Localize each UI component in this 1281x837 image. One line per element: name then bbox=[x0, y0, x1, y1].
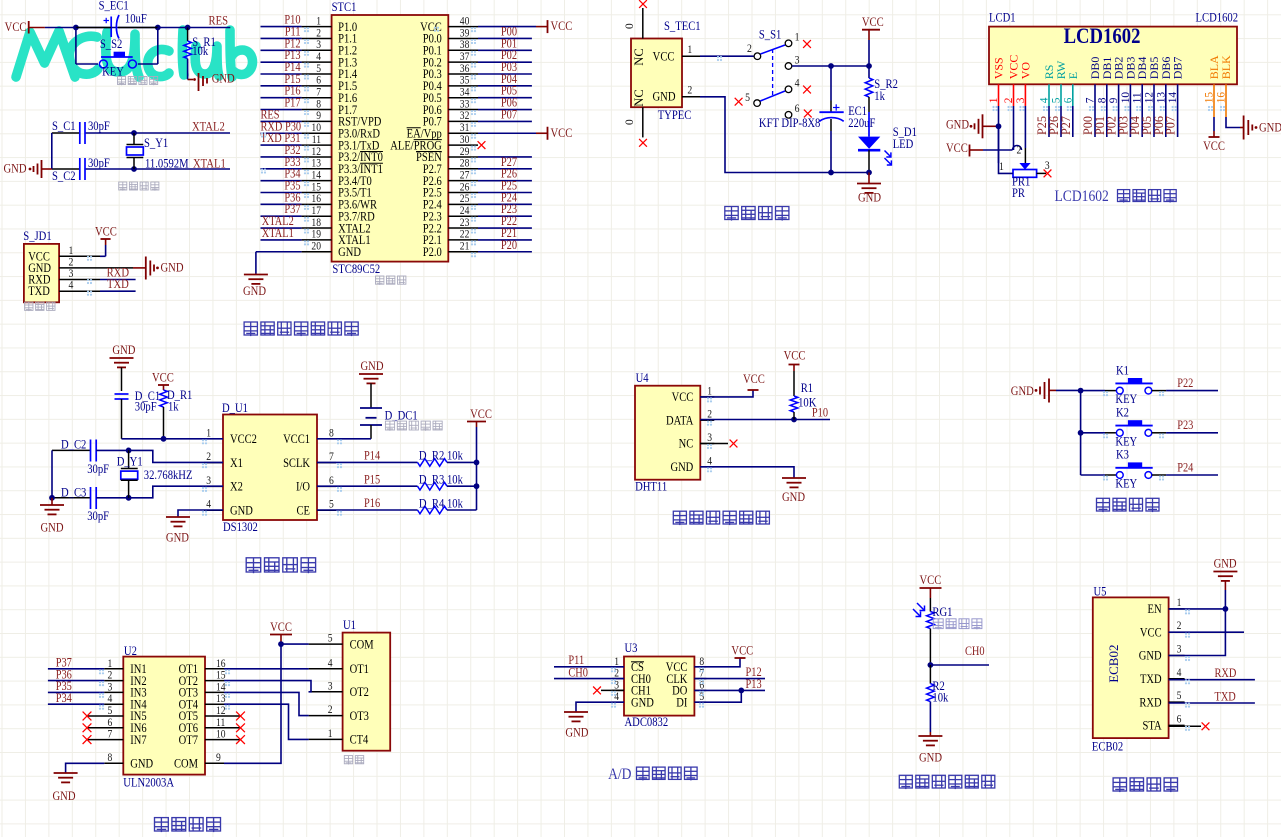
wire left vertical (crystal) bbox=[51, 133, 53, 169]
mcu pin 36 (P0.3) bbox=[448, 73, 478, 75]
svg-text:VCC: VCC bbox=[946, 141, 968, 155]
mcu pin 23 (P2.2) bbox=[448, 227, 478, 229]
svg-text:35: 35 bbox=[460, 75, 470, 87]
overline PSEN bbox=[416, 150, 442, 152]
svg-text:7: 7 bbox=[316, 87, 321, 99]
svg-text:NC: NC bbox=[632, 89, 646, 106]
svg-text:D_R4: D_R4 bbox=[419, 497, 445, 511]
resistor D_R4 10k + net P16 bbox=[317, 509, 418, 511]
adc pin stubs row 2 bbox=[612, 689, 624, 691]
wire pin8 VCC1 bbox=[317, 438, 371, 440]
mcu pin 16 (P3.6/WR) bbox=[261, 203, 302, 205]
svg-text:SCLK: SCLK bbox=[283, 457, 311, 470]
svg-text:D_U1: D_U1 bbox=[222, 401, 248, 415]
svg-text:VO: VO bbox=[1018, 62, 1032, 80]
svg-text:U4: U4 bbox=[636, 371, 649, 385]
push button S_S2 bbox=[75, 28, 77, 65]
pin6 STA stub + X bbox=[1169, 725, 1201, 727]
svg-text:6: 6 bbox=[1177, 714, 1182, 726]
dht11 pin stub 1 bbox=[700, 396, 714, 398]
svg-text:16: 16 bbox=[311, 194, 321, 206]
svg-text:24: 24 bbox=[460, 205, 470, 217]
svg-text:37: 37 bbox=[460, 51, 470, 63]
svg-text:40: 40 bbox=[460, 16, 470, 28]
svg-text:3: 3 bbox=[316, 39, 321, 51]
mcu pin 8 (P1.7) bbox=[261, 109, 302, 111]
mcu pin 2 (P1.1) bbox=[261, 37, 302, 39]
svg-text:GND: GND bbox=[782, 490, 805, 504]
wire lcd pin 14 bbox=[1177, 106, 1179, 137]
svg-text:TXD: TXD bbox=[1140, 673, 1162, 686]
pin4 GND wire bbox=[576, 702, 624, 712]
mcu pin 1 (P1.0) bbox=[261, 26, 302, 28]
svg-text:CH0: CH0 bbox=[568, 667, 588, 680]
logo MCUclub bbox=[16, 30, 253, 77]
svg-text:1: 1 bbox=[707, 386, 712, 398]
mcu pin 14 (P3.4/T0) bbox=[261, 180, 302, 182]
svg-text:P2.0: P2.0 bbox=[423, 246, 442, 259]
svg-text:TYPEC: TYPEC bbox=[658, 108, 692, 122]
svg-text:3: 3 bbox=[206, 475, 211, 487]
ds1302 pin stubs row 2 bbox=[204, 485, 223, 487]
svg-text:220uF: 220uF bbox=[848, 116, 876, 130]
adc pin stubs row 1 bbox=[612, 678, 624, 680]
pin5 DI wire bbox=[694, 690, 741, 702]
svg-text:NC: NC bbox=[679, 438, 694, 451]
resistor D_R3 10k + net P15 bbox=[317, 485, 418, 487]
svg-text:GND: GND bbox=[1139, 650, 1162, 663]
mcu pin 29 (PSEN) bbox=[448, 156, 478, 158]
node junction D3 bbox=[126, 495, 132, 501]
node junction B1 bbox=[1223, 606, 1229, 612]
svg-text:P17: P17 bbox=[284, 97, 300, 110]
ground (adc) bbox=[564, 712, 588, 721]
wire VCC to RES bbox=[45, 27, 230, 29]
svg-text:VCC: VCC bbox=[919, 573, 941, 587]
wire VCC to U1 COM bbox=[281, 643, 309, 645]
wire lcd BLK to GND bbox=[1226, 117, 1240, 128]
svg-text:31: 31 bbox=[460, 122, 470, 134]
svg-text:P15: P15 bbox=[364, 474, 380, 487]
svg-text:VCC: VCC bbox=[551, 126, 573, 140]
node junction L1 bbox=[996, 123, 1002, 129]
bt pin stub 5 bbox=[1169, 701, 1185, 703]
svg-text:4: 4 bbox=[707, 456, 712, 468]
svg-text:D_Y1: D_Y1 bbox=[117, 455, 143, 469]
svg-text:LCD1602: LCD1602 bbox=[1055, 188, 1109, 205]
node junction D2 bbox=[126, 448, 132, 454]
wire XTAL2 net bbox=[52, 132, 80, 134]
capacitor D_C2 30pF bbox=[52, 449, 91, 451]
dht11 pin stub 3 bbox=[700, 443, 714, 445]
mcu pin 24 (P2.3) bbox=[448, 215, 478, 217]
pin1 wire to VCC bbox=[700, 390, 753, 397]
svg-text:XTAL2: XTAL2 bbox=[192, 120, 225, 134]
svg-text:6: 6 bbox=[795, 102, 800, 115]
svg-text:S_S1: S_S1 bbox=[759, 28, 782, 42]
socket U1 pin 1 stub bbox=[309, 738, 343, 740]
node junction A2 bbox=[155, 25, 161, 31]
svg-text:VCC: VCC bbox=[470, 407, 492, 421]
svg-text:1: 1 bbox=[999, 160, 1004, 173]
svg-text:4: 4 bbox=[1177, 667, 1182, 679]
svg-text:LED: LED bbox=[893, 137, 914, 151]
title 单片机最小系统 bbox=[244, 322, 257, 336]
pins 12-10 stubs + X bbox=[205, 715, 240, 717]
svg-text:2: 2 bbox=[328, 704, 333, 716]
wire OT4 to U1 pin1 bbox=[205, 703, 224, 705]
LED S_D1 bbox=[858, 137, 880, 149]
svg-text:P07: P07 bbox=[1164, 116, 1178, 135]
adc U3 ADC0832 body bbox=[624, 657, 694, 716]
annotation 单片机 bbox=[376, 276, 384, 285]
wire lcd VSS down bbox=[998, 106, 1000, 163]
svg-text:P07: P07 bbox=[501, 109, 517, 122]
pin5 RXD wire + net TXD bbox=[1169, 702, 1255, 704]
bt pin stub 3 bbox=[1169, 655, 1185, 657]
svg-text:DB7: DB7 bbox=[1171, 57, 1185, 80]
pin 4 wire + net label TXD bbox=[59, 290, 100, 292]
mcu pin 7 (P1.6) bbox=[261, 97, 302, 99]
svg-text:U1: U1 bbox=[343, 618, 356, 632]
wire K3 to net P24 bbox=[1152, 474, 1166, 476]
svg-text:P27: P27 bbox=[1059, 116, 1073, 135]
svg-text:34: 34 bbox=[460, 87, 470, 99]
wire pin4 GND bbox=[178, 510, 223, 517]
wire lcd pin 9 bbox=[1118, 106, 1120, 137]
capacitor S_C2 30pF bbox=[79, 158, 81, 180]
overline INT0 bbox=[360, 150, 383, 152]
svg-text:VCC: VCC bbox=[731, 644, 753, 658]
svg-text:4: 4 bbox=[328, 658, 333, 670]
wire VCC rail bbox=[868, 40, 870, 78]
svg-text:4: 4 bbox=[206, 499, 211, 511]
power port VCC (download) bbox=[101, 238, 111, 240]
adc pin stubs row 0 bbox=[612, 666, 624, 668]
svg-text:KEY: KEY bbox=[1115, 477, 1137, 491]
ds1302 pin stubs row 1 bbox=[204, 462, 223, 464]
svg-text:GND: GND bbox=[1214, 557, 1237, 571]
node junction P4 bbox=[866, 170, 872, 176]
wire lcd VCC down bbox=[1013, 106, 1015, 150]
svg-text:GND: GND bbox=[230, 505, 253, 518]
svg-text:DATA: DATA bbox=[666, 415, 694, 428]
svg-text:4: 4 bbox=[316, 51, 321, 63]
svg-text:28: 28 bbox=[460, 158, 470, 170]
svg-text:32.768kHZ: 32.768kHZ bbox=[144, 468, 193, 482]
mcu pin 3 (P1.2) bbox=[261, 49, 302, 51]
svg-text:GND: GND bbox=[166, 531, 189, 545]
svg-text:VSS: VSS bbox=[992, 57, 1006, 79]
wire pin3 X2 jog bbox=[129, 486, 223, 498]
svg-text:TXD: TXD bbox=[1215, 691, 1236, 704]
svg-text:GND: GND bbox=[919, 751, 942, 765]
svg-text:EN: EN bbox=[1148, 603, 1163, 616]
ground (sideways, reset) bbox=[188, 79, 193, 81]
svg-text:21: 21 bbox=[460, 241, 470, 253]
svg-text:2: 2 bbox=[206, 451, 211, 463]
wire lcd VO down bbox=[1024, 106, 1026, 148]
svg-text:9: 9 bbox=[216, 752, 221, 764]
socket U1 pin 5 stub bbox=[309, 643, 343, 645]
adc pin stubs row 3 bbox=[612, 701, 624, 703]
svg-text:OT3: OT3 bbox=[350, 710, 370, 723]
annotation 光敏电阻 bbox=[933, 619, 943, 630]
wire key rail bbox=[1080, 391, 1082, 475]
svg-text:2: 2 bbox=[316, 28, 321, 40]
mcu pin 11 (P3.1/TxD) bbox=[261, 144, 302, 146]
svg-text:K2: K2 bbox=[1116, 406, 1129, 420]
svg-text:8: 8 bbox=[329, 428, 334, 440]
pin4 GND wire bbox=[700, 467, 794, 478]
title 蓝牙模块 bbox=[1113, 778, 1127, 792]
svg-text:P24: P24 bbox=[1177, 462, 1193, 475]
node junction G1 bbox=[928, 662, 934, 668]
crystal D_Y1 32.768kHZ bbox=[128, 450, 130, 468]
pin1 wire + net P11 bbox=[554, 666, 624, 668]
svg-text:NC: NC bbox=[632, 48, 646, 65]
svg-text:22: 22 bbox=[460, 229, 470, 241]
wire VCC rail to COM pin9 bbox=[224, 644, 281, 763]
svg-text:23: 23 bbox=[460, 217, 470, 229]
svg-text:13: 13 bbox=[311, 158, 321, 170]
svg-text:VCC: VCC bbox=[95, 225, 117, 239]
svg-text:P11: P11 bbox=[568, 654, 584, 667]
mcu pin 22 (P2.1) bbox=[448, 239, 478, 241]
svg-text:14: 14 bbox=[311, 170, 321, 182]
photoresistor RG1 bbox=[929, 598, 931, 612]
svg-text:VCC: VCC bbox=[270, 620, 292, 634]
wire clock VCC rail bbox=[476, 427, 478, 510]
svg-text:STC89C52: STC89C52 bbox=[332, 262, 380, 276]
node junction D1 bbox=[161, 436, 167, 442]
svg-text:10k: 10k bbox=[932, 691, 948, 705]
bt pin stub 4 bbox=[1169, 678, 1185, 680]
wire VO to pot wiper bbox=[1024, 148, 1026, 163]
svg-text:11.0592M: 11.0592M bbox=[145, 157, 189, 171]
svg-text:3: 3 bbox=[795, 54, 800, 67]
svg-text:11: 11 bbox=[312, 134, 321, 146]
capacitor S_C1 30pF bbox=[79, 122, 81, 144]
svg-text:30pF: 30pF bbox=[87, 462, 109, 476]
svg-text:K1: K1 bbox=[1116, 364, 1129, 378]
svg-text:P34: P34 bbox=[56, 692, 72, 705]
node junction ADC1 bbox=[738, 688, 744, 694]
ground (power circuit) bbox=[868, 173, 870, 184]
svg-text:K3: K3 bbox=[1116, 448, 1129, 462]
pin8 wire to VCC bbox=[694, 658, 740, 667]
mcu pin 19 (XTAL1) bbox=[261, 239, 302, 241]
svg-text:U3: U3 bbox=[625, 641, 638, 655]
no-connect X pin5 bbox=[735, 98, 743, 106]
svg-text:RXD: RXD bbox=[1139, 697, 1161, 710]
no-connect X pin6 bbox=[804, 110, 812, 118]
svg-text:4: 4 bbox=[795, 77, 800, 90]
svg-text:VCC: VCC bbox=[5, 20, 27, 34]
svg-text:ECB02: ECB02 bbox=[1106, 645, 1121, 683]
node junction D4 bbox=[49, 495, 55, 501]
node junction K0b bbox=[1078, 430, 1084, 436]
svg-text:VCC1: VCC1 bbox=[283, 433, 310, 446]
svg-text:RXD: RXD bbox=[1215, 667, 1237, 680]
net labels P37 P36 P35 P34 + wires pins1-4 bbox=[48, 668, 104, 670]
svg-text:1: 1 bbox=[1177, 597, 1182, 609]
mcu pin 27 (P2.6) bbox=[448, 180, 478, 182]
title 光照采集电路 bbox=[899, 775, 912, 789]
mcu pin 37 (P0.2) bbox=[448, 61, 478, 63]
svg-text:39: 39 bbox=[460, 28, 470, 40]
svg-text:VCC: VCC bbox=[653, 50, 675, 64]
svg-text:8: 8 bbox=[108, 752, 113, 764]
svg-text:GND: GND bbox=[53, 789, 76, 803]
svg-text:5: 5 bbox=[316, 63, 321, 75]
svg-text:COM: COM bbox=[174, 758, 198, 771]
svg-text:2: 2 bbox=[747, 43, 752, 56]
wire lcd pin 6 bbox=[1072, 106, 1074, 137]
mcu pin 40 (VCC) bbox=[448, 26, 478, 28]
svg-text:17: 17 bbox=[311, 205, 321, 217]
power port VCC (reset) bbox=[28, 21, 30, 34]
wire lcd pin 4 bbox=[1048, 106, 1050, 137]
annotation 纽扣电池座 bbox=[385, 421, 394, 431]
svg-text:27: 27 bbox=[460, 170, 470, 182]
overline INT1 bbox=[360, 162, 383, 164]
svg-text:LCD1602: LCD1602 bbox=[1196, 11, 1239, 25]
node junction A1 bbox=[73, 25, 79, 31]
svg-text:5: 5 bbox=[329, 499, 334, 511]
driver U2 ULN2003A body bbox=[123, 657, 205, 775]
svg-text:10k: 10k bbox=[447, 497, 463, 511]
crystal S_Y1 11.0592M bbox=[131, 130, 137, 136]
node junction P1 bbox=[828, 63, 834, 69]
pin7 CLK wire + net P12 bbox=[694, 678, 765, 680]
mcu pin 4 (P1.3) bbox=[261, 61, 302, 63]
mcu pin 18 (XTAL2) bbox=[261, 227, 302, 229]
svg-text:IN7: IN7 bbox=[130, 734, 147, 747]
socket U1 pin 2 stub bbox=[309, 715, 343, 717]
svg-text:VCC: VCC bbox=[672, 391, 694, 404]
wire OT3 to U1 pin2 bbox=[205, 691, 224, 693]
pin 0 bottom (TYPEC shield) bbox=[642, 107, 644, 137]
pin 2 wire (S_JD1 GND) bbox=[59, 267, 133, 269]
pin 3 wire + net label RXD bbox=[59, 279, 100, 281]
svg-text:GND: GND bbox=[1259, 121, 1281, 135]
svg-text:I/O: I/O bbox=[296, 481, 310, 494]
svg-text:GND: GND bbox=[1011, 384, 1034, 398]
svg-text:7: 7 bbox=[329, 451, 334, 463]
svg-text:ULN2003A: ULN2003A bbox=[123, 776, 174, 790]
bt module U5 ECB02 body bbox=[1093, 597, 1169, 738]
push button K1 bbox=[1081, 390, 1105, 392]
ground (clock left) bbox=[51, 498, 53, 505]
svg-text:A/D: A/D bbox=[608, 766, 632, 783]
svg-text:5: 5 bbox=[328, 633, 333, 645]
svg-text:STA: STA bbox=[1143, 720, 1163, 733]
wire GND down to pin1 bbox=[1224, 590, 1226, 609]
svg-text:XTAL1: XTAL1 bbox=[262, 227, 294, 240]
svg-text:36: 36 bbox=[460, 63, 470, 75]
svg-text:D_C2: D_C2 bbox=[61, 438, 87, 452]
sensor U4 DHT11 body bbox=[635, 386, 700, 480]
svg-text:30: 30 bbox=[460, 134, 470, 146]
node junction D5 bbox=[474, 460, 480, 466]
lcd LCD1 LCD1602 body bbox=[989, 27, 1237, 85]
node junction D6 bbox=[474, 483, 480, 489]
svg-text:DI: DI bbox=[676, 697, 687, 710]
svg-text:29: 29 bbox=[460, 146, 470, 158]
mcu pin 26 (P2.5) bbox=[448, 192, 478, 194]
svg-text:3: 3 bbox=[1045, 159, 1050, 172]
overline PROG bbox=[414, 139, 442, 141]
svg-text:1: 1 bbox=[206, 428, 211, 440]
pot pin3 + X bbox=[1037, 172, 1046, 174]
svg-text:TXD: TXD bbox=[107, 277, 129, 291]
svg-text:D_C3: D_C3 bbox=[61, 486, 87, 500]
svg-text:30pF: 30pF bbox=[87, 509, 109, 523]
svg-text:DS1302: DS1302 bbox=[223, 520, 258, 534]
svg-text:VCC: VCC bbox=[862, 15, 884, 29]
svg-text:3: 3 bbox=[328, 681, 333, 693]
wire OT2 to U1 pin3 bbox=[205, 680, 224, 682]
pin2 VCC wire bbox=[1169, 631, 1244, 633]
node junction P2 bbox=[866, 63, 872, 69]
svg-text:CE: CE bbox=[297, 505, 310, 518]
power port VCC (adc) bbox=[735, 657, 746, 659]
compile marks bbox=[304, 27, 309, 32]
svg-text:VCC: VCC bbox=[784, 349, 806, 363]
svg-text:VCC: VCC bbox=[152, 371, 174, 385]
svg-text:S_C1: S_C1 bbox=[52, 119, 76, 133]
wire pot pin1 bbox=[999, 126, 1014, 173]
pin3 NC + X bbox=[700, 443, 728, 445]
ds1302 pin stubs row 3 bbox=[204, 509, 223, 511]
svg-text:GND: GND bbox=[112, 343, 135, 357]
ground (sideways, download) bbox=[133, 267, 146, 269]
svg-text:38: 38 bbox=[460, 39, 470, 51]
socket U1 pin 4 stub bbox=[309, 668, 343, 670]
mcu pin 39 (P0.0) bbox=[448, 37, 478, 39]
svg-text:GND: GND bbox=[130, 758, 153, 771]
svg-text:DHT11: DHT11 bbox=[635, 480, 667, 494]
pin8 GND wire bbox=[104, 762, 123, 764]
pin 2 wire (TYPEC GND) bbox=[682, 96, 700, 98]
svg-text:5: 5 bbox=[745, 92, 750, 105]
pin 1 wire (S_JD1 VCC) bbox=[59, 255, 100, 257]
bt pin stub 1 bbox=[1169, 608, 1185, 610]
wire lcd pin 12 bbox=[1153, 106, 1155, 137]
node junction P3 bbox=[828, 170, 834, 176]
pin2 wire + net CH0 bbox=[554, 678, 624, 680]
svg-text:10k: 10k bbox=[192, 44, 208, 58]
wire lcd BLA to VCC bbox=[1213, 117, 1215, 131]
svg-text:S_TEC1: S_TEC1 bbox=[664, 19, 701, 33]
svg-text:26: 26 bbox=[460, 182, 470, 194]
mcu pin 15 (P3.5/T1) bbox=[261, 192, 302, 194]
wire K2 to net P23 bbox=[1152, 432, 1166, 434]
svg-text:COM: COM bbox=[350, 639, 374, 652]
svg-text:12: 12 bbox=[311, 146, 321, 158]
mcu pin 28 (P2.7) bbox=[448, 168, 478, 170]
svg-text:VCC: VCC bbox=[1203, 139, 1225, 153]
svg-text:STC1: STC1 bbox=[332, 0, 357, 14]
mcu pin 33 (P0.6) bbox=[448, 109, 478, 111]
node junction A3 bbox=[185, 25, 191, 31]
socket U1 pin 3 stub bbox=[309, 691, 343, 693]
svg-text:4: 4 bbox=[69, 279, 74, 292]
svg-text:6: 6 bbox=[329, 475, 334, 487]
wire left vertical (clock) bbox=[51, 450, 53, 497]
power port VCC (lcd right) bbox=[1209, 136, 1220, 138]
